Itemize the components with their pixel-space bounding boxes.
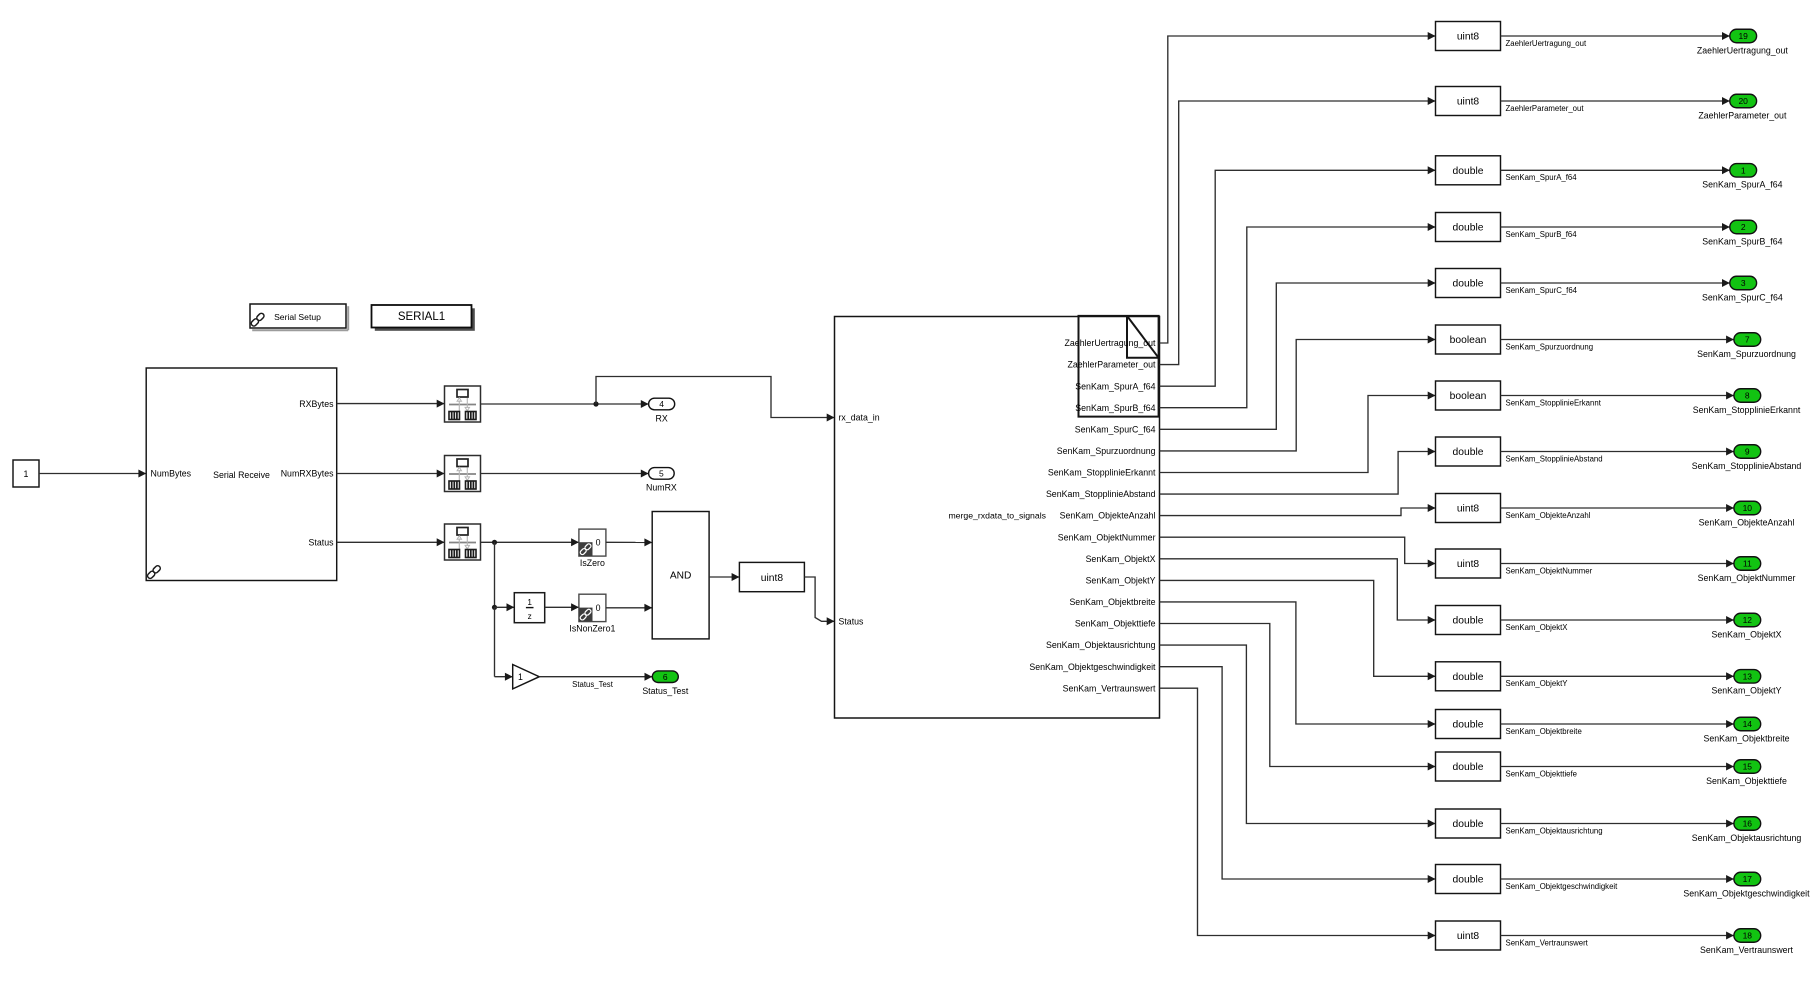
- svg-text:Status: Status: [839, 616, 865, 626]
- svg-text:ZaehlerUertragung_out: ZaehlerUertragung_out: [1506, 39, 1587, 48]
- svg-text:SenKam_Objekttiefe: SenKam_Objekttiefe: [1706, 776, 1787, 786]
- svg-text:SenKam_ObjekteAnzahl: SenKam_ObjekteAnzahl: [1060, 511, 1156, 521]
- svg-text:0: 0: [596, 603, 601, 613]
- svg-text:8: 8: [1745, 391, 1750, 401]
- svg-text:13: 13: [1743, 671, 1753, 681]
- svg-text:ZaehlerParameter_out: ZaehlerParameter_out: [1506, 104, 1585, 113]
- svg-text:RXBytes: RXBytes: [299, 399, 334, 409]
- svg-text:SenKam_Spurzuordnung: SenKam_Spurzuordnung: [1506, 342, 1594, 351]
- svg-text:Serial Setup: Serial Setup: [274, 312, 321, 322]
- svg-text:SenKam_Objektgeschwindigkeit: SenKam_Objektgeschwindigkeit: [1683, 888, 1810, 898]
- svg-text:17: 17: [1743, 874, 1753, 884]
- svg-text:16: 16: [1743, 819, 1753, 829]
- svg-text:SenKam_Spurzuordnung: SenKam_Spurzuordnung: [1057, 446, 1156, 456]
- svg-text:1: 1: [24, 469, 29, 479]
- svg-text:SenKam_Vertraunswert: SenKam_Vertraunswert: [1063, 683, 1156, 693]
- svg-text:SenKam_Objektgeschwindigkeit: SenKam_Objektgeschwindigkeit: [1029, 662, 1156, 672]
- svg-text:SenKam_Objektgeschwindigkeit: SenKam_Objektgeschwindigkeit: [1506, 882, 1619, 891]
- svg-text:NumBytes: NumBytes: [151, 469, 192, 479]
- svg-text:SenKam_SpurB_f64: SenKam_SpurB_f64: [1702, 236, 1782, 246]
- svg-text:AND: AND: [670, 571, 692, 582]
- svg-text:14: 14: [1743, 719, 1753, 729]
- svg-text:uint8: uint8: [1457, 97, 1480, 108]
- svg-text:SenKam_StopplinieErkannt: SenKam_StopplinieErkannt: [1048, 468, 1156, 478]
- svg-text:double: double: [1453, 720, 1484, 731]
- svg-text:IsZero: IsZero: [580, 558, 605, 568]
- svg-text:SenKam_SpurC_f64: SenKam_SpurC_f64: [1075, 424, 1156, 434]
- svg-text:SenKam_StopplinieErkannt: SenKam_StopplinieErkannt: [1506, 398, 1602, 407]
- svg-text:SenKam_Objektausrichtung: SenKam_Objektausrichtung: [1692, 833, 1802, 843]
- svg-text:10: 10: [1743, 503, 1753, 513]
- svg-text:double: double: [1453, 672, 1484, 683]
- svg-text:11: 11: [1743, 559, 1752, 569]
- svg-text:15: 15: [1743, 762, 1753, 772]
- svg-text:3: 3: [1741, 278, 1746, 288]
- svg-text:double: double: [1453, 447, 1484, 458]
- svg-text:SenKam_Vertraunswert: SenKam_Vertraunswert: [1506, 938, 1589, 947]
- svg-text:SenKam_SpurA_f64: SenKam_SpurA_f64: [1702, 180, 1782, 190]
- svg-text:rx_data_in: rx_data_in: [839, 413, 880, 423]
- svg-text:SenKam_StopplinieAbstand: SenKam_StopplinieAbstand: [1692, 461, 1802, 471]
- svg-text:IsNonZero1: IsNonZero1: [569, 623, 615, 633]
- svg-text:SenKam_ObjektX: SenKam_ObjektX: [1086, 554, 1156, 564]
- svg-text:SenKam_SpurC_f64: SenKam_SpurC_f64: [1506, 286, 1578, 295]
- svg-text:uint8: uint8: [1457, 559, 1480, 570]
- svg-text:SenKam_Objekttiefe: SenKam_Objekttiefe: [1075, 619, 1156, 629]
- svg-text:boolean: boolean: [1450, 335, 1487, 346]
- svg-text:SenKam_ObjektY: SenKam_ObjektY: [1712, 686, 1782, 696]
- svg-text:SenKam_ObjektNummer: SenKam_ObjektNummer: [1698, 573, 1796, 583]
- svg-text:SERIAL1: SERIAL1: [398, 311, 445, 323]
- svg-text:double: double: [1453, 223, 1484, 234]
- svg-text:SenKam_Objektausrichtung: SenKam_Objektausrichtung: [1046, 640, 1156, 650]
- svg-text:SenKam_ObjektY: SenKam_ObjektY: [1086, 576, 1156, 586]
- svg-text:z: z: [528, 612, 532, 621]
- svg-text:RX: RX: [655, 414, 667, 424]
- svg-text:merge_rxdata_to_signals: merge_rxdata_to_signals: [948, 511, 1046, 521]
- svg-text:SenKam_ObjektNummer: SenKam_ObjektNummer: [1058, 532, 1156, 542]
- svg-text:boolean: boolean: [1450, 391, 1487, 402]
- svg-text:1: 1: [1741, 165, 1746, 175]
- svg-text:0: 0: [596, 538, 601, 548]
- svg-text:NumRX: NumRX: [646, 483, 677, 493]
- svg-text:SenKam_SpurB_f64: SenKam_SpurB_f64: [1075, 403, 1155, 413]
- svg-text:6: 6: [663, 672, 668, 682]
- svg-text:SenKam_SpurB_f64: SenKam_SpurB_f64: [1506, 230, 1578, 239]
- svg-text:12: 12: [1743, 615, 1753, 625]
- svg-text:SenKam_SpurA_f64: SenKam_SpurA_f64: [1075, 381, 1155, 391]
- svg-text:Status_Test: Status_Test: [572, 680, 614, 689]
- svg-text:ZaehlerUertragung_out: ZaehlerUertragung_out: [1065, 338, 1157, 348]
- svg-text:7: 7: [1745, 335, 1750, 345]
- svg-text:4: 4: [659, 399, 664, 409]
- svg-text:ZaehlerParameter_out: ZaehlerParameter_out: [1067, 360, 1156, 370]
- svg-text:double: double: [1453, 762, 1484, 773]
- svg-text:SenKam_Objektbreite: SenKam_Objektbreite: [1703, 733, 1789, 743]
- svg-text:SenKam_Objektbreite: SenKam_Objektbreite: [1069, 597, 1155, 607]
- svg-text:double: double: [1453, 616, 1484, 627]
- svg-text:SenKam_ObjektY: SenKam_ObjektY: [1506, 679, 1569, 688]
- svg-text:SenKam_ObjekteAnzahl: SenKam_ObjekteAnzahl: [1699, 517, 1795, 527]
- svg-text:18: 18: [1743, 931, 1753, 941]
- svg-text:1: 1: [518, 672, 523, 682]
- svg-text:SenKam_Spurzuordnung: SenKam_Spurzuordnung: [1697, 349, 1796, 359]
- svg-text:SenKam_Vertraunswert: SenKam_Vertraunswert: [1700, 945, 1793, 955]
- svg-text:double: double: [1453, 875, 1484, 886]
- svg-text:2: 2: [1741, 222, 1746, 232]
- svg-text:Status_Test: Status_Test: [642, 686, 689, 696]
- svg-text:SenKam_SpurC_f64: SenKam_SpurC_f64: [1702, 292, 1783, 302]
- svg-text:uint8: uint8: [1457, 931, 1480, 942]
- svg-text:double: double: [1453, 166, 1484, 177]
- svg-text:NumRXBytes: NumRXBytes: [281, 469, 334, 479]
- svg-text:9: 9: [1745, 447, 1750, 457]
- svg-text:ZaehlerParameter_out: ZaehlerParameter_out: [1698, 110, 1787, 120]
- svg-text:SenKam_StopplinieErkannt: SenKam_StopplinieErkannt: [1693, 405, 1801, 415]
- svg-text:SenKam_Objektbreite: SenKam_Objektbreite: [1506, 727, 1582, 736]
- svg-text:Status: Status: [309, 537, 335, 547]
- svg-text:SenKam_StopplinieAbstand: SenKam_StopplinieAbstand: [1046, 489, 1156, 499]
- svg-text:SenKam_ObjektX: SenKam_ObjektX: [1712, 629, 1782, 639]
- svg-text:uint8: uint8: [1457, 504, 1480, 515]
- svg-text:uint8: uint8: [761, 573, 784, 584]
- svg-text:ZaehlerUertragung_out: ZaehlerUertragung_out: [1697, 45, 1789, 55]
- svg-text:SenKam_ObjekteAnzahl: SenKam_ObjekteAnzahl: [1506, 511, 1591, 520]
- svg-text:SenKam_Objekttiefe: SenKam_Objekttiefe: [1506, 769, 1578, 778]
- svg-text:double: double: [1453, 279, 1484, 290]
- svg-text:SenKam_SpurA_f64: SenKam_SpurA_f64: [1506, 173, 1578, 182]
- svg-text:1: 1: [527, 598, 532, 607]
- svg-text:5: 5: [659, 469, 664, 479]
- svg-text:SenKam_ObjektNummer: SenKam_ObjektNummer: [1506, 566, 1593, 575]
- svg-text:Serial Receive: Serial Receive: [213, 470, 270, 480]
- svg-text:SenKam_ObjektX: SenKam_ObjektX: [1506, 623, 1569, 632]
- svg-text:SenKam_Objektausrichtung: SenKam_Objektausrichtung: [1506, 826, 1603, 835]
- svg-text:SenKam_StopplinieAbstand: SenKam_StopplinieAbstand: [1506, 454, 1603, 463]
- svg-text:20: 20: [1738, 96, 1748, 106]
- svg-text:uint8: uint8: [1457, 32, 1480, 43]
- svg-text:19: 19: [1738, 31, 1748, 41]
- svg-text:double: double: [1453, 819, 1484, 830]
